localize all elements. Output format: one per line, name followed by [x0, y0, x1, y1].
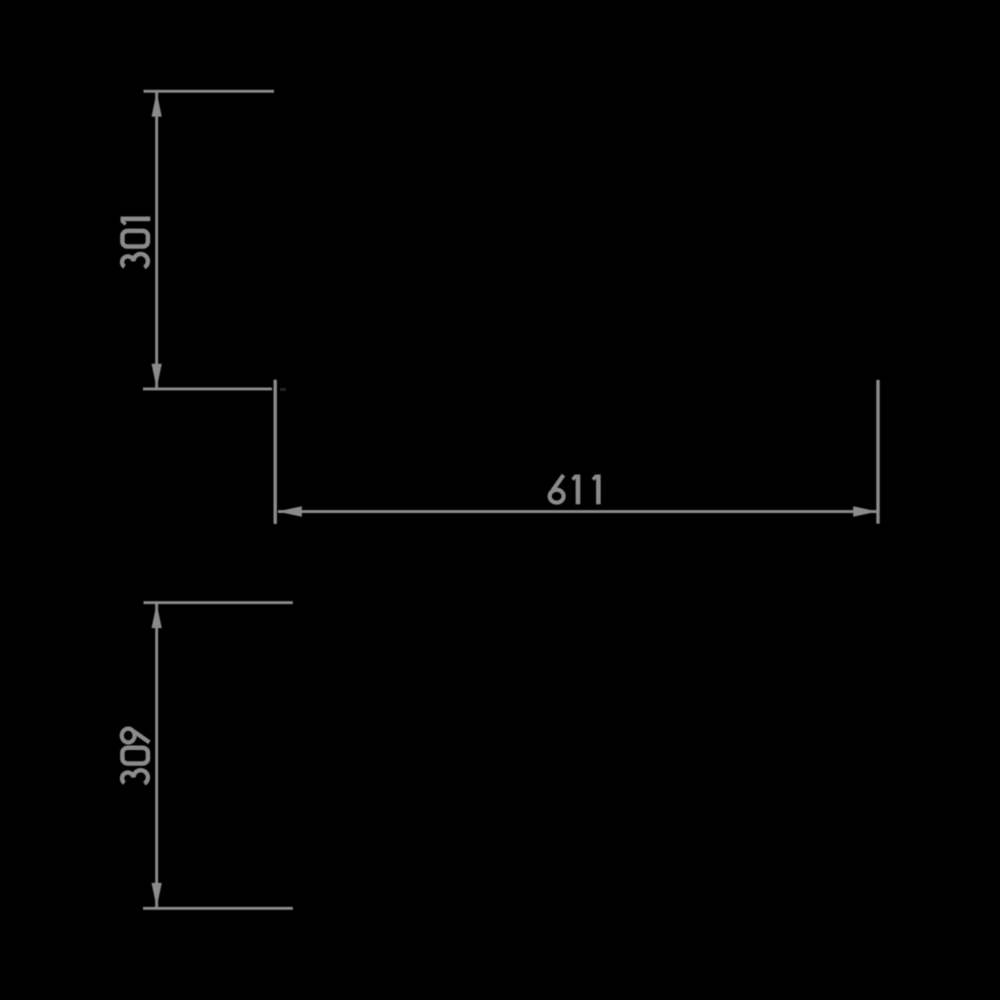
dimension 309: arrowhead up: [152, 604, 162, 628]
dimension 611: label text 611: [550, 475, 599, 505]
dimension 301: vertical dimension line: [155, 91, 158, 388]
dimension 301: arrowhead up: [152, 92, 162, 116]
dimension 309: arrowhead down: [152, 883, 162, 907]
dimension 611: arrowhead right: [853, 506, 877, 516]
dimension 611: right extension line: [876, 380, 879, 524]
dimension 611: arrowhead left: [277, 506, 301, 516]
dimension 309: label text 309 (rotated): [122, 729, 150, 784]
dimension 309: vertical dimension line: [155, 603, 158, 908]
dimension 301: bottom extension line: [143, 388, 272, 391]
dimension 309: bottom extension line: [143, 907, 293, 910]
dimension 611: left extension line: [274, 380, 277, 524]
dimension 301: arrowhead down: [152, 364, 162, 388]
faint artifact dash near 611 left extension: [280, 388, 286, 391]
dimension 309: top extension line: [144, 601, 293, 604]
dimension 301: top extension line: [144, 90, 275, 93]
dimension 611: horizontal dimension line: [278, 510, 877, 513]
dimension 301: label text 301 (rotated): [121, 219, 151, 268]
